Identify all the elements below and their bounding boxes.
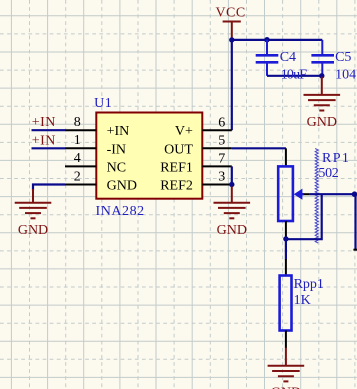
value 502 (318, 166, 338, 181)
svg-text:VCC: VCC (215, 6, 245, 21)
svg-text:502: 502 (318, 166, 338, 181)
svg-text:5: 5 (218, 133, 225, 148)
svg-text:8: 8 (74, 115, 81, 130)
wire C5 bottom lead (321, 63, 323, 75)
pin 6 (202, 129, 232, 131)
pin number 7 (218, 152, 225, 167)
wire VCC rail to C5 (232, 39, 322, 41)
junction at RP1 bottom (283, 236, 288, 241)
svg-text:V+: V+ (175, 124, 193, 139)
label GND (capacitors) (307, 115, 337, 130)
svg-text:GND: GND (107, 179, 137, 194)
svg-text:+IN: +IN (107, 124, 130, 139)
pin number 3 (218, 170, 225, 185)
value 1K (294, 293, 311, 308)
svg-text:-IN: -IN (107, 142, 126, 157)
svg-text:REF2: REF2 (160, 179, 193, 194)
svg-text:NC: NC (107, 160, 126, 175)
wire net +IN to pin 1 (32, 147, 66, 149)
pin name OUT (164, 142, 193, 157)
RP1 wiper pin (304, 193, 310, 195)
power port VCC (223, 22, 241, 40)
designator RP1 (322, 151, 350, 166)
wire pin 2 to ground (33, 185, 65, 191)
junction at pin 3 (229, 182, 234, 187)
RP1 bottom pin (285, 221, 287, 239)
svg-text:3: 3 (218, 170, 225, 185)
svg-text:1: 1 (74, 133, 81, 148)
RP1 top pin (285, 148, 287, 166)
ground at Rpp1 (268, 348, 305, 382)
pin name REF1 (160, 160, 193, 175)
wire OUT to RP1 (232, 147, 286, 149)
svg-text:GND: GND (18, 223, 48, 238)
svg-text:RP1: RP1 (322, 151, 350, 166)
pin 1 (65, 147, 96, 149)
RP1 wiper arrow (294, 189, 304, 200)
svg-text:4: 4 (74, 151, 81, 166)
svg-text:7: 7 (218, 152, 225, 167)
svg-text:10uF: 10uF (281, 67, 308, 82)
svg-text:+IN: +IN (32, 115, 56, 130)
svg-text:OUT: OUT (164, 142, 193, 157)
pin 3 (202, 184, 232, 186)
pin name GND (107, 179, 137, 194)
RP1 zigzag marker (315, 149, 318, 244)
wire wiper to RP1 bottom (286, 194, 322, 239)
pin number 6 (218, 115, 225, 130)
capacitor C5 (311, 55, 334, 62)
svg-text:Rpp1: Rpp1 (294, 277, 324, 292)
label GND (REF pins) (217, 223, 247, 238)
potentiometer RP1 body (278, 166, 293, 221)
svg-text:U1: U1 (94, 96, 112, 111)
ground at pin 2 (15, 189, 52, 218)
wire net +IN to pin 8 (32, 129, 66, 131)
wire down along right edge (354, 194, 356, 250)
pin name +IN (107, 124, 130, 139)
wire wiper to right edge (310, 193, 357, 195)
svg-text:GND: GND (217, 223, 247, 238)
pin name NC (107, 160, 126, 175)
pin number 4 (74, 151, 81, 166)
wire RP1 bottom to Rpp1 (285, 239, 287, 260)
svg-text:+IN: +IN (32, 133, 56, 148)
ground under C5 (304, 77, 341, 111)
IC U1 body (96, 113, 202, 199)
wire C4 bottom lead (266, 63, 268, 75)
pin name -IN (107, 142, 126, 157)
svg-text:2: 2 (74, 169, 81, 184)
pin name V+ (175, 124, 193, 139)
pin number 8 (74, 115, 81, 130)
wire VCC down to pin 6 (231, 40, 233, 130)
junction at right edge (352, 191, 357, 197)
pin number 1 (74, 133, 81, 148)
svg-text:6: 6 (218, 115, 225, 130)
pin stub exiting right edge (353, 249, 357, 251)
net label +IN (pin 1) (32, 133, 56, 148)
pin number 5 (218, 133, 225, 148)
designator Rpp1 (294, 277, 324, 292)
wire C4 top lead (266, 40, 268, 55)
designator U1 (94, 96, 112, 111)
pin name REF2 (160, 179, 193, 194)
value 104 (335, 67, 356, 82)
label C5 (335, 50, 351, 65)
pin 8 (65, 129, 96, 131)
pin 4 (65, 165, 96, 167)
label GND (pin 2) (18, 223, 48, 238)
wire between cap bottoms (267, 75, 322, 77)
pin number 2 (74, 169, 81, 184)
svg-text:INA282: INA282 (96, 204, 145, 219)
pin 5 (202, 147, 232, 149)
Rpp1 bottom pin (285, 331, 287, 349)
value 10uF (281, 67, 308, 82)
svg-text:C4: C4 (280, 50, 296, 65)
net label +IN (pin 8) (32, 115, 56, 130)
junction below VCC (229, 37, 234, 42)
wire C5 top lead (321, 40, 323, 54)
svg-text:GND: GND (307, 115, 337, 130)
wire pin 7 to pin 3 (231, 166, 233, 184)
svg-text:104: 104 (335, 67, 356, 82)
capacitor C4 (256, 55, 279, 62)
label C4 (280, 50, 296, 65)
value INA282 (96, 204, 145, 219)
label VCC (215, 6, 245, 21)
svg-text:1K: 1K (294, 293, 311, 308)
Rpp1 top pin (285, 259, 287, 276)
svg-text:GND: GND (271, 385, 301, 389)
svg-text:REF1: REF1 (160, 160, 193, 175)
junction at C5 bottom (319, 73, 324, 78)
resistor Rpp1 body (280, 276, 292, 331)
pin 2 (65, 184, 96, 186)
ground at REF pins (214, 187, 251, 219)
junction at C4 top (264, 37, 269, 42)
label GND (Rpp1) (271, 385, 301, 389)
pin 7 (202, 165, 232, 167)
svg-text:C5: C5 (335, 50, 351, 65)
